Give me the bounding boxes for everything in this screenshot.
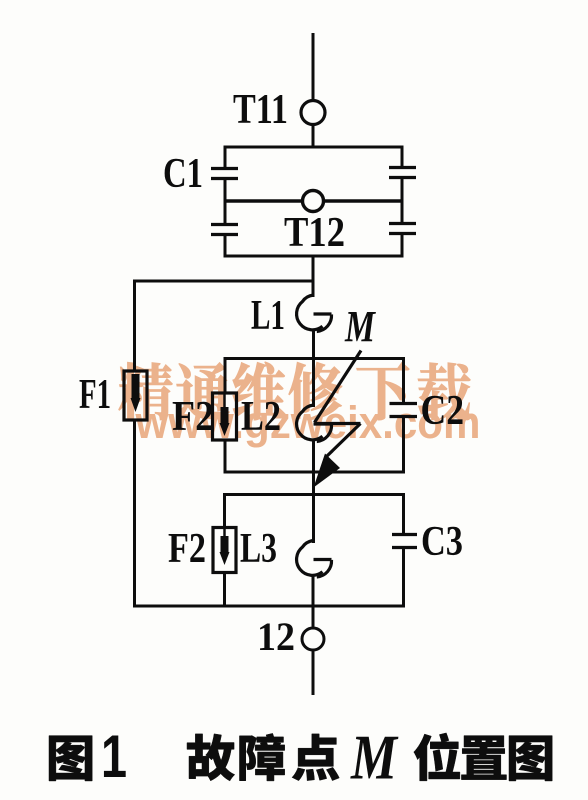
box C1 left edge: [224, 147, 227, 168]
wire L2 to L3: [312, 440, 315, 543]
terminal T12 node: [303, 191, 324, 212]
box C1 bottom: [224, 255, 404, 258]
box 3 left lower: [223, 573, 226, 607]
wire T11 to box: [312, 125, 315, 148]
watermark char 2: [177, 363, 230, 420]
caption char 2: [187, 734, 235, 781]
terminal 12: [302, 628, 324, 650]
caption char 1: [49, 736, 92, 781]
capacitor C1 upper-left plates: [211, 167, 238, 170]
fault bolt lower stroke: [326, 424, 361, 458]
wire box C1 to L1: [312, 256, 315, 297]
terminal T11: [301, 101, 325, 125]
box 2 top: [224, 357, 406, 360]
wire top feed: [312, 33, 315, 100]
inductor L3: [297, 541, 323, 576]
svg-text:T11: T11: [233, 87, 288, 133]
caption char 4: [292, 734, 339, 781]
fuse F2 (middle) body: [213, 393, 237, 440]
svg-text:F2: F2: [168, 526, 206, 572]
svg-text:L2: L2: [241, 394, 281, 440]
svg-text:1: 1: [101, 723, 127, 790]
svg-text:L1: L1: [251, 293, 285, 339]
wire bottom feed: [312, 650, 315, 695]
inductor L1: [297, 295, 323, 330]
svg-text:L3: L3: [240, 526, 277, 572]
svg-text:M: M: [344, 302, 376, 351]
svg-text:C1: C1: [163, 151, 203, 197]
box 3 top: [223, 493, 405, 496]
box 2 left upper: [224, 359, 227, 395]
box 2 right lower: [402, 417, 405, 473]
svg-text:T12: T12: [284, 210, 345, 256]
box C1 top: [224, 146, 404, 149]
fuse F2 (middle) element arrow: [223, 393, 226, 407]
capacitor C2 plates: [390, 402, 418, 405]
box 2 right upper: [402, 359, 405, 404]
wire L1 to L2: [312, 330, 315, 407]
svg-text:F1: F1: [79, 372, 111, 418]
capacitor C3 plates: [392, 533, 417, 536]
caption char 3: [239, 733, 284, 781]
inductor L2: [297, 405, 323, 440]
watermark char 3: [233, 362, 286, 420]
svg-text:12: 12: [257, 614, 295, 659]
wire branch left down: [133, 280, 136, 372]
box 3 left upper: [223, 495, 226, 529]
fuse F1 body: [124, 371, 147, 420]
watermark char 4: [289, 362, 342, 420]
svg-text:C2: C2: [421, 388, 465, 434]
watermark char 5: [357, 363, 410, 420]
capacitor C1 lower-left plates: [211, 223, 238, 226]
wire L3 to terminal 12: [312, 576, 315, 629]
fuse F2 (bottom) body: [213, 528, 236, 573]
caption char 5: [414, 733, 460, 781]
watermark char 6: [418, 363, 470, 420]
capacitor C1 lower-right plates: [389, 222, 416, 225]
watermark char 1: [119, 362, 173, 420]
wire branch top to F1: [134, 280, 313, 283]
fault bolt arrowhead: [314, 454, 341, 488]
caption char 7: [509, 736, 552, 781]
svg-text:C3: C3: [421, 519, 463, 565]
box 3 right upper: [402, 495, 405, 535]
box C1 middle tap wire: [225, 199, 402, 202]
box C1 right edge: [401, 147, 404, 167]
svg-text:M: M: [350, 722, 399, 793]
fuse F2 (bottom) element arrow: [223, 528, 226, 537]
caption char 6: [461, 736, 506, 780]
capacitor C1 upper-right plates: [389, 166, 416, 169]
box 2 bottom: [224, 471, 406, 474]
fault bolt middle stroke: [315, 422, 361, 425]
fuse F1 element arrow: [132, 374, 140, 400]
box 3 right lower: [402, 548, 405, 607]
box 2 left lower: [224, 440, 227, 472]
fault bolt upper stroke: [315, 351, 362, 423]
box 3 bottom joined with branch: [135, 605, 406, 608]
svg-text:F2: F2: [172, 394, 214, 440]
